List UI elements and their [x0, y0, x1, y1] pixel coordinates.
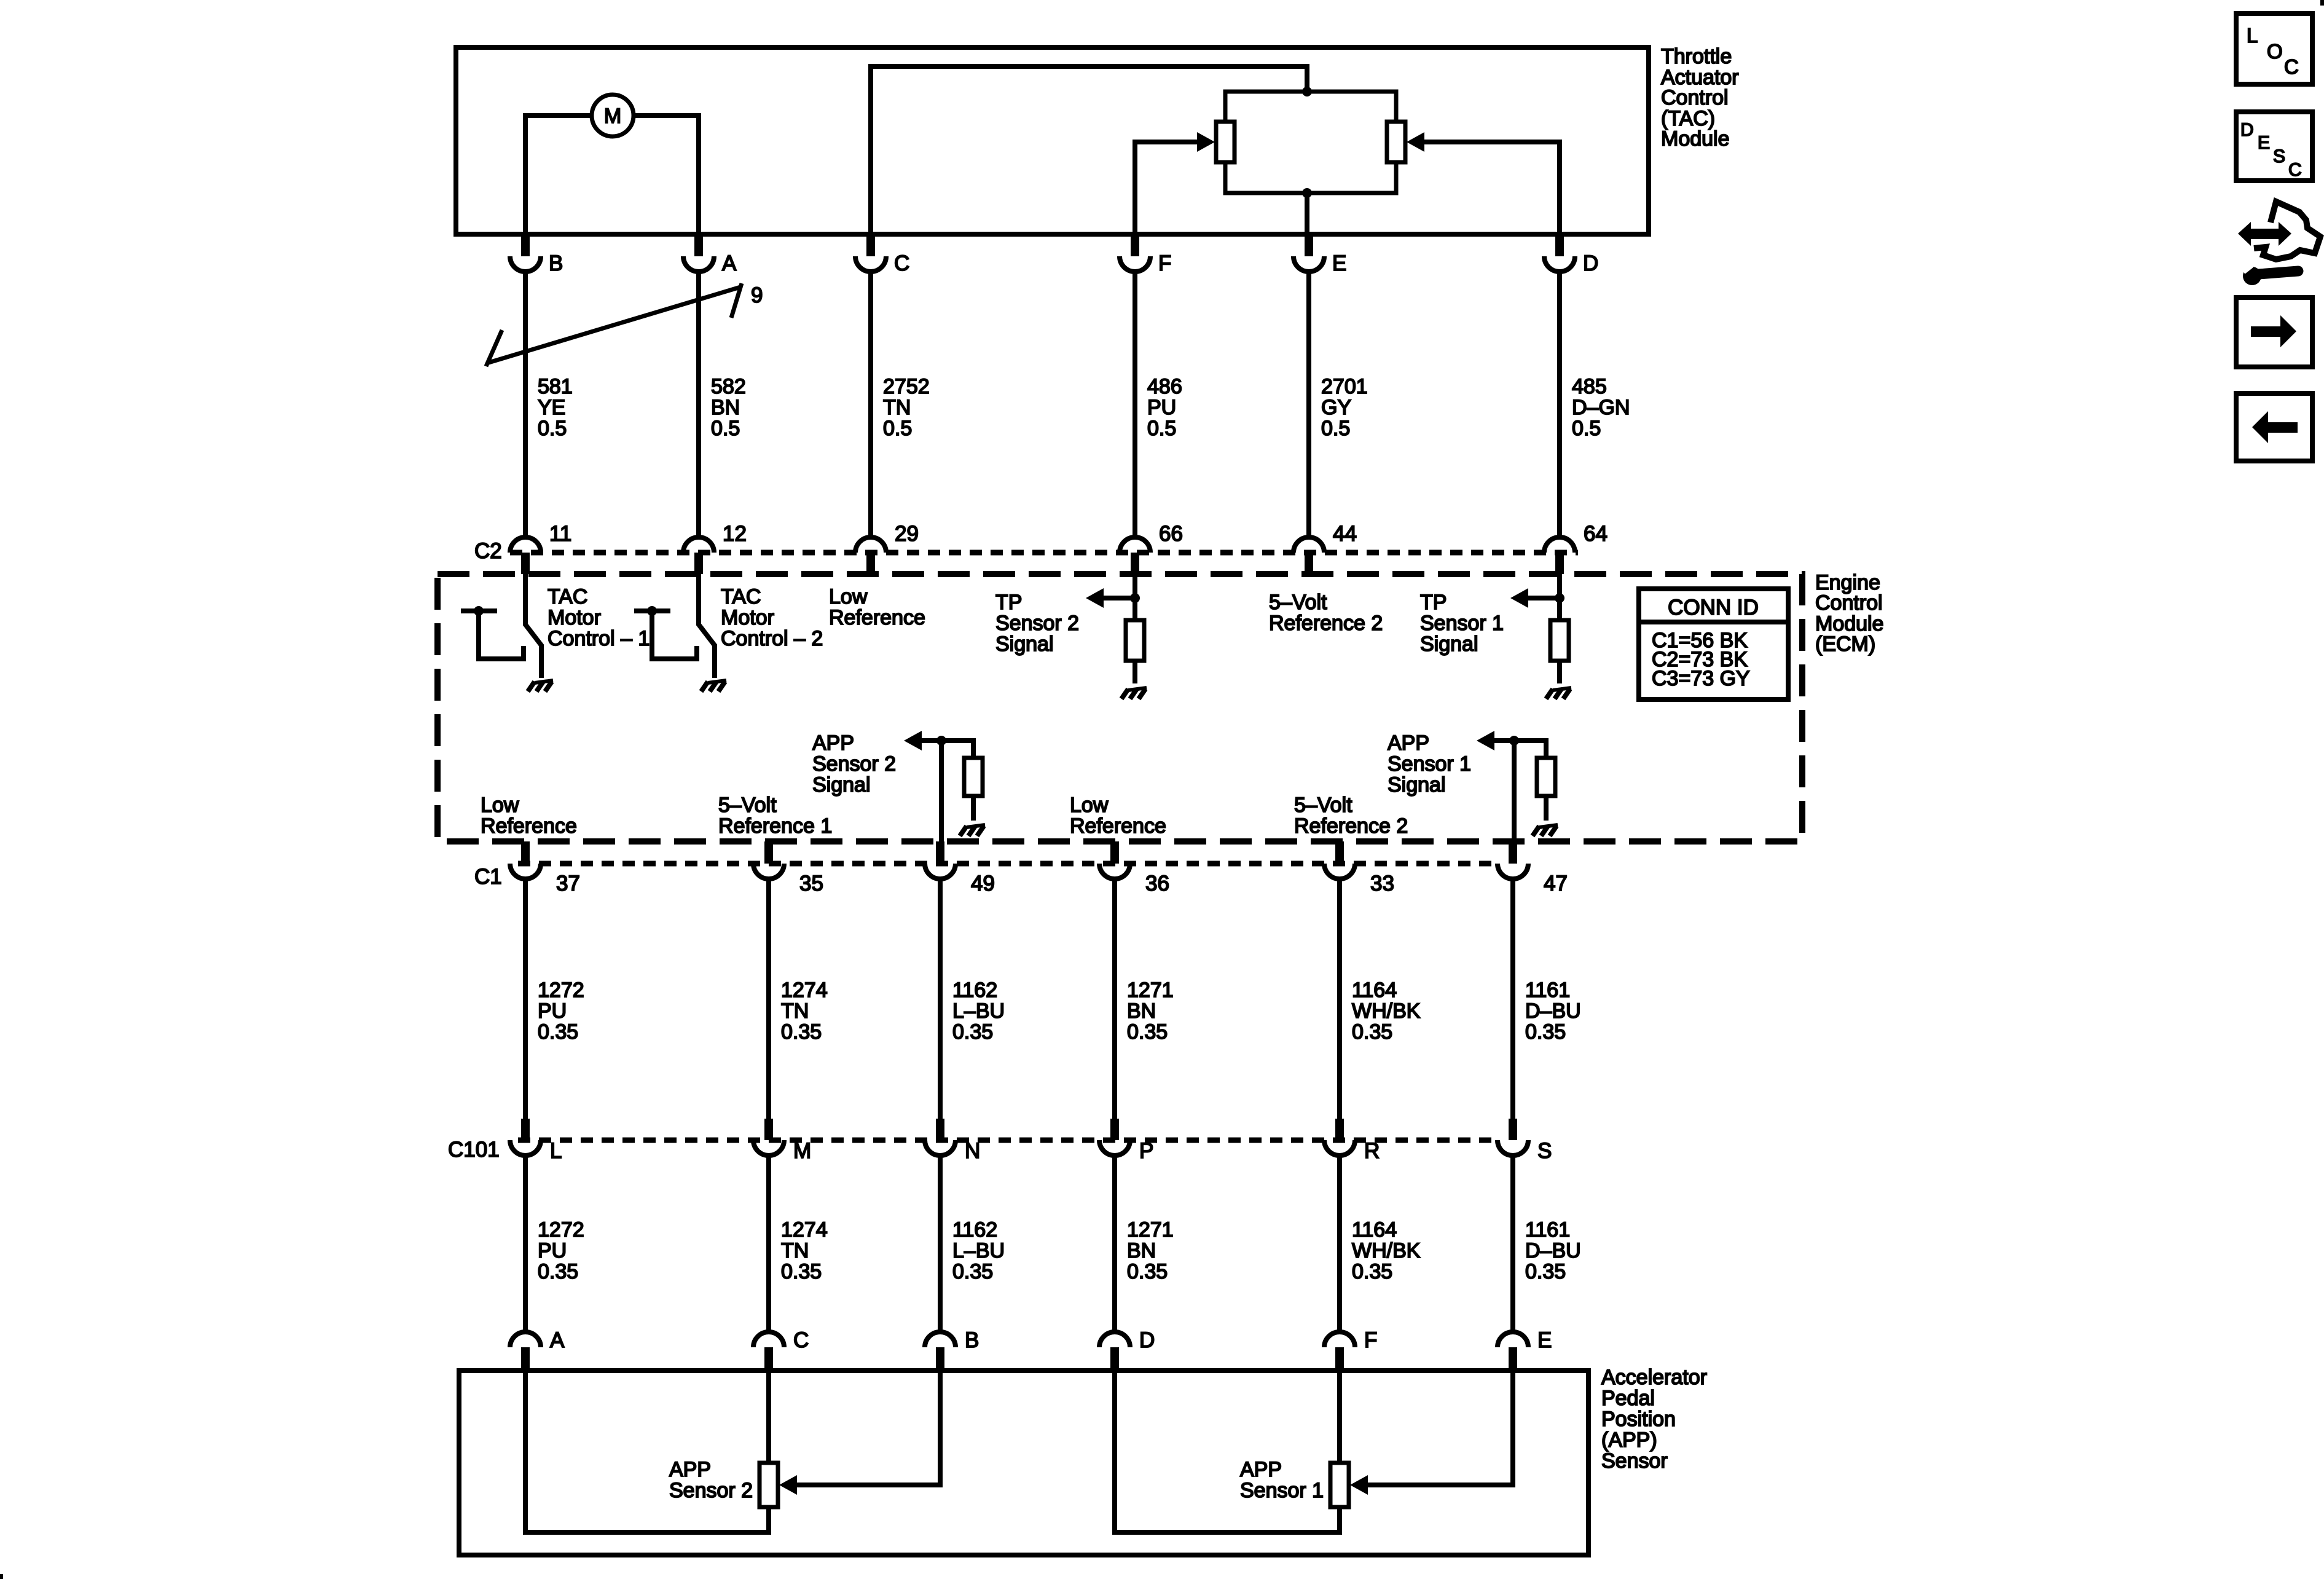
svg-text:Sensor 1: Sensor 1: [1420, 612, 1504, 635]
svg-text:F: F: [1158, 251, 1171, 275]
APP sensor box: [459, 1371, 1588, 1555]
svg-text:Reference: Reference: [1070, 814, 1166, 838]
ECM TAC motor control 2 driver: [634, 574, 715, 678]
svg-text:Sensor: Sensor: [1601, 1449, 1668, 1473]
ground TP sensor 2: [1121, 688, 1147, 699]
ECM APP sensor 1 signal circuit: [1494, 736, 1555, 841]
svg-text:44: 44: [1333, 522, 1357, 546]
svg-text:Module: Module: [1661, 127, 1730, 151]
svg-text:O: O: [2267, 40, 2283, 63]
TAC motor control 2 label: [721, 585, 823, 650]
TAC motor control 1 label: [548, 585, 650, 650]
C101 pin M: [753, 1119, 811, 1163]
TP sensor track resistor left: [1216, 122, 1235, 162]
APP pin D: [1099, 1328, 1155, 1371]
C2 pin 66: [1120, 522, 1183, 574]
svg-text:CONN ID: CONN ID: [1668, 596, 1759, 620]
svg-text:11: 11: [549, 522, 571, 546]
wire 2752 TN: [868, 272, 873, 537]
svg-text:D–GN: D–GN: [1572, 396, 1630, 419]
svg-text:Sensor 2: Sensor 2: [812, 752, 896, 776]
5-volt reference 2 label (pin 44): [1269, 591, 1383, 635]
svg-text:Signal: Signal: [1388, 773, 1446, 797]
svg-text:Low: Low: [481, 793, 519, 817]
svg-text:Motor: Motor: [721, 606, 774, 629]
svg-text:12: 12: [723, 522, 747, 546]
svg-text:F: F: [1364, 1328, 1377, 1352]
wire 1274 TN (C1 to C101): [766, 879, 771, 1120]
ECM module dashed border: [438, 574, 1802, 841]
svg-text:0.35: 0.35: [1525, 1020, 1566, 1044]
C1 pin 36: [1099, 841, 1169, 896]
connector C1 dashed line: [518, 861, 1498, 867]
TP sensor 2 signal label: [995, 591, 1079, 656]
TAC pin B: [510, 232, 563, 275]
wire label 2701 GY 0.5: [1321, 375, 1368, 440]
svg-text:A: A: [722, 251, 737, 275]
wire 582 BN: [696, 272, 701, 537]
arrowhead APP sensor 1: [1477, 731, 1494, 750]
svg-text:581: 581: [538, 375, 573, 398]
svg-text:Accelerator: Accelerator: [1601, 1366, 1707, 1389]
svg-text:Pedal: Pedal: [1601, 1387, 1655, 1410]
svg-text:0.35: 0.35: [781, 1260, 822, 1283]
APP sensor 1 signal label: [1388, 731, 1471, 797]
APP pin F: [1324, 1328, 1377, 1371]
wire 1161 D–BU (C1 to C101): [1510, 879, 1515, 1120]
svg-text:0.35: 0.35: [952, 1020, 993, 1044]
svg-text:C: C: [2288, 160, 2302, 180]
low reference label (pin 29): [829, 585, 925, 629]
svg-text:0.35: 0.35: [1127, 1020, 1168, 1044]
svg-text:TAC: TAC: [548, 585, 587, 608]
wire label 582 BN 0.5: [711, 375, 746, 440]
arrowhead APP sensor 2 wiper: [779, 1475, 797, 1495]
svg-text:37: 37: [556, 872, 580, 896]
C2 pin 11: [510, 522, 571, 574]
wire 1272 PU (C101 to APP): [523, 1156, 528, 1333]
svg-text:1272: 1272: [538, 979, 584, 1002]
svg-text:5–Volt: 5–Volt: [1269, 591, 1327, 614]
APP pin E: [1498, 1328, 1552, 1371]
junction node TP sensor bottom: [1302, 188, 1312, 198]
ECM APP sensor 2 signal circuit: [922, 736, 983, 841]
wire label 1272 PU 0.35: [538, 979, 584, 1044]
ECM connector ID table: [1639, 589, 1788, 699]
svg-text:485: 485: [1572, 375, 1607, 398]
svg-text:Motor: Motor: [548, 606, 601, 629]
wire label 1161 D–BU 0.35 (lower): [1525, 1218, 1581, 1283]
back (left arrow) icon: [2236, 393, 2312, 461]
APP sensor 2 signal label: [812, 731, 896, 797]
wire 1274 TN (C101 to APP): [766, 1156, 771, 1333]
svg-text:Control: Control: [1661, 86, 1729, 109]
TAC pin D: [1544, 232, 1598, 275]
ECM TP sensor 2 signal circuit: [1104, 574, 1144, 683]
svg-text:B: B: [965, 1328, 979, 1352]
wire 1271 BN (C1 to C101): [1112, 879, 1117, 1120]
svg-text:0.35: 0.35: [1525, 1260, 1566, 1283]
junction node TP sensor top: [1302, 87, 1312, 96]
svg-text:PU: PU: [538, 1239, 567, 1262]
APP sensor 1 supply wire: [1337, 1373, 1342, 1463]
wiper arrowhead into left track: [1197, 132, 1215, 152]
wire motor to TAC pin A: [634, 116, 699, 234]
svg-text:33: 33: [1370, 872, 1394, 896]
svg-text:WH/BK: WH/BK: [1352, 999, 1421, 1023]
ECM TAC motor control 1 driver: [461, 574, 541, 678]
svg-text:Reference: Reference: [481, 814, 577, 838]
APP sensor 2 label: [669, 1458, 753, 1502]
svg-text:P: P: [1139, 1139, 1153, 1163]
wire TAC pin C to TP sensor top: [871, 66, 1307, 234]
APP sensor 2 return wire: [525, 1373, 769, 1532]
wire 1271 BN (C101 to APP): [1112, 1156, 1117, 1333]
svg-text:BN: BN: [1127, 1239, 1156, 1262]
page corner mark bottom-left: [0, 1574, 3, 1579]
wire 485 D–GN: [1557, 272, 1562, 537]
ground TAC motor control 2: [701, 680, 726, 691]
wire 1161 D–BU (C101 to APP): [1510, 1156, 1515, 1333]
svg-text:1271: 1271: [1127, 1218, 1174, 1242]
APP sensor 1 element: [1330, 1463, 1349, 1507]
svg-text:0.35: 0.35: [952, 1260, 993, 1283]
connector C2 dashed line: [510, 550, 1578, 556]
svg-text:E: E: [2258, 133, 2270, 153]
motor M: [592, 95, 634, 136]
C1 pin 49: [925, 841, 995, 896]
wire 1162 L–BU (C1 to C101): [938, 879, 943, 1120]
svg-text:APP: APP: [1240, 1458, 1282, 1481]
C101 pin S: [1498, 1119, 1552, 1163]
svg-text:582: 582: [711, 375, 746, 398]
svg-text:C: C: [894, 251, 909, 275]
svg-text:APP: APP: [1388, 731, 1429, 755]
svg-text:0.5: 0.5: [1572, 417, 1601, 440]
svg-text:Control: Control: [1815, 591, 1883, 615]
harness marker 9 leader: [486, 283, 742, 366]
svg-text:S: S: [1537, 1139, 1552, 1163]
svg-text:TN: TN: [883, 396, 911, 419]
svg-text:1164: 1164: [1352, 979, 1397, 1002]
svg-text:Throttle: Throttle: [1661, 45, 1732, 68]
TP sensor 1 signal label: [1420, 591, 1504, 656]
svg-text:5–Volt: 5–Volt: [1294, 793, 1352, 817]
svg-text:486: 486: [1147, 375, 1182, 398]
svg-text:Control – 2: Control – 2: [721, 627, 823, 650]
svg-text:0.5: 0.5: [1147, 417, 1176, 440]
svg-text:A: A: [550, 1328, 565, 1352]
svg-text:C3=73 GY: C3=73 GY: [1652, 667, 1750, 690]
svg-text:M: M: [604, 104, 621, 128]
ground TAC motor control 1: [528, 680, 553, 691]
svg-text:BN: BN: [1127, 999, 1156, 1023]
wire label 1272 PU 0.35 (lower): [538, 1218, 584, 1283]
APP sensor 2 element: [760, 1463, 778, 1507]
arrowhead APP sensor 1 wiper: [1350, 1475, 1368, 1495]
DESC icon: [2236, 112, 2312, 181]
svg-text:66: 66: [1159, 522, 1183, 546]
TAC pin C: [855, 232, 909, 275]
wire label 1162 L–BU 0.35: [952, 979, 1005, 1044]
page corner mark top-right: [2320, 0, 2324, 6]
wire label 1162 L–BU 0.35 (lower): [952, 1218, 1005, 1283]
wire label 1271 BN 0.35: [1127, 979, 1174, 1044]
C101 pin R: [1324, 1119, 1380, 1163]
svg-text:B: B: [549, 251, 563, 275]
svg-text:TP: TP: [995, 591, 1022, 614]
svg-text:Reference 2: Reference 2: [1294, 814, 1408, 838]
svg-text:TN: TN: [781, 1239, 809, 1262]
svg-text:D–BU: D–BU: [1525, 1239, 1581, 1262]
svg-text:1164: 1164: [1352, 1218, 1397, 1242]
svg-text:0.35: 0.35: [538, 1260, 578, 1283]
svg-text:1161: 1161: [1525, 1218, 1570, 1242]
svg-text:0.35: 0.35: [1352, 1260, 1392, 1283]
svg-text:9: 9: [751, 283, 763, 307]
svg-text:0.5: 0.5: [711, 417, 740, 440]
next (right arrow) icon: [2236, 297, 2312, 367]
svg-text:Signal: Signal: [812, 773, 871, 797]
svg-text:C: C: [2284, 55, 2299, 78]
svg-text:L: L: [2247, 24, 2258, 47]
APP sensor 1 return wire: [1115, 1373, 1340, 1532]
TAC pin F: [1120, 232, 1171, 275]
svg-text:1274: 1274: [781, 1218, 828, 1242]
svg-text:(ECM): (ECM): [1815, 632, 1875, 656]
svg-text:N: N: [965, 1139, 980, 1163]
svg-text:L–BU: L–BU: [952, 999, 1005, 1023]
wire 486 PU: [1133, 272, 1137, 537]
svg-text:Sensor 1: Sensor 1: [1240, 1479, 1324, 1502]
TAC module label: [1661, 45, 1739, 151]
svg-text:TN: TN: [781, 999, 809, 1023]
svg-text:Reference 1: Reference 1: [718, 814, 832, 838]
wire label 581 YE 0.5: [538, 375, 573, 440]
wire 1164 WH/BK (C101 to APP): [1337, 1156, 1342, 1333]
svg-text:0.35: 0.35: [781, 1020, 822, 1044]
5-volt reference 2 label (pin 33): [1294, 793, 1408, 838]
TAC pin E: [1294, 232, 1346, 275]
svg-text:C101: C101: [448, 1138, 500, 1162]
wire 581 YE: [523, 272, 528, 537]
wire TAC pin F wiper: [1135, 142, 1197, 234]
svg-text:Signal: Signal: [1420, 632, 1478, 656]
C2 pin 29: [855, 522, 919, 574]
svg-text:1271: 1271: [1127, 979, 1174, 1002]
svg-text:5–Volt: 5–Volt: [718, 793, 777, 817]
svg-text:2752: 2752: [883, 375, 930, 398]
svg-text:L: L: [550, 1139, 562, 1163]
TP sensor element box: [1225, 92, 1396, 193]
svg-text:64: 64: [1584, 522, 1608, 546]
svg-text:0.35: 0.35: [1352, 1020, 1392, 1044]
C1 pin 33: [1324, 841, 1394, 896]
C1 pin 35: [753, 841, 823, 896]
wire label 1274 TN 0.35: [781, 979, 828, 1044]
svg-text:TAC: TAC: [721, 585, 761, 608]
wiper arrowhead into right track: [1407, 132, 1424, 152]
svg-text:49: 49: [971, 872, 995, 896]
wire label 1164 WH/BK 0.35: [1352, 979, 1421, 1044]
wire label 485 D–GN 0.5: [1572, 375, 1630, 440]
svg-text:TP: TP: [1420, 591, 1447, 614]
wire 1162 L–BU (C101 to APP): [938, 1156, 943, 1333]
APP pin C: [753, 1328, 809, 1371]
APP sensor module label: [1601, 1366, 1707, 1473]
APP sensor 1 wiper arrow wire: [1368, 1373, 1513, 1485]
svg-text:S: S: [2273, 146, 2285, 167]
svg-text:29: 29: [895, 522, 919, 546]
APP sensor 2 wiper arrow wire: [797, 1373, 940, 1485]
svg-text:PU: PU: [1147, 396, 1176, 419]
wire TP sensor bottom to TAC pin E: [1305, 193, 1309, 234]
TAC module box: [456, 47, 1649, 234]
C101 pin L: [510, 1119, 562, 1163]
svg-text:2701: 2701: [1321, 375, 1368, 398]
svg-text:0.5: 0.5: [1321, 417, 1350, 440]
ground TP sensor 1: [1546, 688, 1571, 699]
APP sensor 1 label: [1240, 1458, 1324, 1502]
wire label 1274 TN 0.35 (lower): [781, 1218, 828, 1283]
wire label 486 PU 0.5: [1147, 375, 1182, 440]
ground APP sensor 1: [1533, 825, 1558, 836]
APP pin B: [925, 1328, 979, 1371]
svg-text:WH/BK: WH/BK: [1352, 1239, 1421, 1262]
low reference label (pin 36): [1070, 793, 1166, 838]
APP pin A: [510, 1328, 565, 1371]
svg-text:PU: PU: [538, 999, 567, 1023]
ECM module label: [1815, 571, 1884, 656]
arrowhead TP sensor 1: [1510, 588, 1528, 608]
svg-text:R: R: [1364, 1139, 1380, 1163]
svg-text:Sensor 2: Sensor 2: [669, 1479, 753, 1502]
wire TAC pin B to motor: [525, 116, 592, 234]
svg-text:D: D: [1583, 251, 1598, 275]
svg-text:0.5: 0.5: [538, 417, 567, 440]
svg-text:0.35: 0.35: [1127, 1260, 1168, 1283]
low reference label (pin 37): [481, 793, 577, 838]
wire label 2752 TN 0.5: [883, 375, 930, 440]
wire TAC pin D wiper: [1424, 142, 1560, 234]
5-volt reference 1 label (pin 35): [718, 793, 832, 838]
svg-text:C: C: [793, 1328, 809, 1352]
wire 1272 PU (C1 to C101): [523, 879, 528, 1120]
svg-text:YE: YE: [538, 396, 565, 419]
svg-text:D: D: [1139, 1328, 1155, 1352]
svg-text:Sensor 1: Sensor 1: [1388, 752, 1471, 776]
svg-text:1161: 1161: [1525, 979, 1570, 1002]
svg-text:E: E: [1332, 251, 1346, 275]
svg-text:1274: 1274: [781, 979, 828, 1002]
svg-text:Control – 1: Control – 1: [548, 627, 650, 650]
svg-text:Position: Position: [1601, 1408, 1676, 1431]
svg-text:C1: C1: [474, 865, 502, 889]
svg-text:1162: 1162: [952, 1218, 997, 1242]
svg-text:D: D: [2240, 120, 2254, 140]
wire label 1161 D–BU 0.35: [1525, 979, 1581, 1044]
wire label 1164 WH/BK 0.35 (lower): [1352, 1218, 1421, 1283]
svg-text:C2: C2: [474, 539, 502, 563]
wire 1164 WH/BK (C1 to C101): [1337, 879, 1342, 1120]
APP sensor 2 supply wire: [766, 1373, 771, 1463]
svg-text:Low: Low: [829, 585, 868, 608]
wire label 1271 BN 0.35 (lower): [1127, 1218, 1174, 1283]
wire 2701 GY: [1306, 272, 1311, 537]
svg-text:1272: 1272: [538, 1218, 584, 1242]
C2 pin 64: [1544, 522, 1608, 574]
C1 pin 37: [510, 841, 580, 896]
svg-text:(APP): (APP): [1601, 1428, 1657, 1452]
arrowhead APP sensor 2: [904, 731, 922, 750]
C2 pin 12: [683, 522, 747, 574]
svg-text:Signal: Signal: [995, 632, 1054, 656]
svg-text:1162: 1162: [952, 979, 997, 1002]
svg-text:47: 47: [1544, 872, 1568, 896]
ECM TP sensor 1 signal circuit: [1528, 574, 1569, 683]
svg-text:0.5: 0.5: [883, 417, 912, 440]
C101 pin N: [925, 1119, 980, 1163]
adjust/see icon: [2238, 202, 2320, 285]
svg-text:0.35: 0.35: [538, 1020, 578, 1044]
svg-text:APP: APP: [669, 1458, 711, 1481]
svg-text:Low: Low: [1070, 793, 1109, 817]
arrowhead TP sensor 2: [1086, 588, 1104, 608]
svg-text:E: E: [1537, 1328, 1552, 1352]
TAC pin A: [683, 232, 737, 275]
svg-text:Sensor 2: Sensor 2: [995, 612, 1079, 635]
svg-text:35: 35: [799, 872, 823, 896]
svg-text:M: M: [793, 1139, 811, 1163]
connector C101 dashed line: [518, 1138, 1498, 1143]
ground APP sensor 2: [960, 825, 985, 836]
svg-text:Reference 2: Reference 2: [1269, 612, 1383, 635]
svg-text:BN: BN: [711, 396, 740, 419]
svg-text:GY: GY: [1321, 396, 1351, 419]
svg-text:D–BU: D–BU: [1525, 999, 1581, 1023]
svg-text:36: 36: [1145, 872, 1169, 896]
svg-text:L–BU: L–BU: [952, 1239, 1005, 1262]
svg-text:APP: APP: [812, 731, 854, 755]
TP sensor track resistor right: [1387, 122, 1405, 162]
C2 pin 44: [1294, 522, 1357, 574]
C101 pin P: [1099, 1119, 1153, 1163]
svg-text:Reference: Reference: [829, 606, 925, 629]
LOC icon: [2236, 14, 2312, 84]
C1 pin 47: [1498, 841, 1568, 896]
